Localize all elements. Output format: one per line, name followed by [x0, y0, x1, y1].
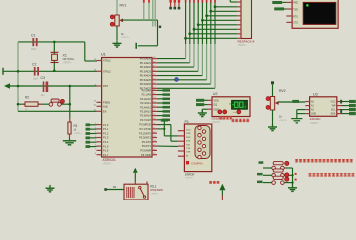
svg-text:SDA: SDA: [331, 113, 336, 116]
svg-text:EA: EA: [103, 110, 107, 114]
svg-text:P3.4/T0: P3.4/T0: [142, 140, 152, 144]
svg-text:WP: WP: [332, 106, 336, 108]
svg-text:4B: 4B: [113, 186, 116, 189]
svg-text:ALE: ALE: [103, 105, 108, 109]
svg-text:<TEXT>: <TEXT>: [121, 36, 130, 39]
svg-text:<TEXT>: <TEXT>: [103, 162, 113, 165]
svg-text:30: 30: [94, 105, 97, 107]
svg-text:P1.6: P1.6: [103, 149, 109, 153]
svg-text:AT89C51: AT89C51: [103, 158, 116, 162]
svg-text:<TEXT>: <TEXT>: [63, 62, 73, 65]
svg-text:<TEXT>: <TEXT>: [150, 192, 159, 195]
svg-text:GND: GND: [311, 114, 316, 116]
svg-text:SCL: SCL: [331, 110, 336, 112]
svg-text:P0.5/AD5: P0.5/AD5: [140, 78, 152, 82]
svg-text:DTR: DTR: [186, 152, 191, 154]
svg-text:P0.3/AD3: P0.3/AD3: [140, 69, 152, 73]
svg-text:1k: 1k: [279, 115, 282, 119]
svg-text:TXD: TXD: [293, 9, 298, 11]
svg-text:P1.5: P1.5: [103, 144, 109, 148]
svg-text:30pF: 30pF: [31, 48, 37, 51]
svg-text:<TEXT>: <TEXT>: [185, 177, 194, 180]
svg-text:24C04C: 24C04C: [310, 117, 322, 121]
svg-text:<TEXT>: <TEXT>: [212, 121, 222, 124]
svg-text:RXD: RXD: [186, 137, 191, 139]
svg-text:RESPACK-8: RESPACK-8: [238, 40, 255, 44]
svg-text:<TEXT>: <TEXT>: [310, 122, 320, 125]
svg-text:P3.3/INT1: P3.3/INT1: [139, 136, 151, 140]
svg-text:CTS: CTS: [293, 23, 298, 25]
svg-text:<TEXT>: <TEXT>: [74, 132, 83, 135]
svg-text:1k: 1k: [121, 32, 124, 36]
svg-text:CTS: CTS: [186, 148, 191, 150]
svg-text:10u: 10u: [41, 94, 46, 97]
svg-text:P1: P1: [185, 120, 189, 124]
svg-text:RV1: RV1: [120, 3, 127, 7]
svg-text:8: 8: [95, 153, 97, 155]
svg-text:P2.3/A11: P2.3/A11: [140, 101, 151, 105]
svg-text:P3.2/INT0: P3.2/INT0: [139, 131, 151, 135]
svg-text:P2.6/A14: P2.6/A14: [140, 114, 151, 118]
svg-text:DQ: DQ: [214, 104, 218, 107]
svg-text:CRYSTAL: CRYSTAL: [63, 57, 75, 61]
svg-text:P1.3: P1.3: [103, 136, 109, 140]
svg-text:29: 29: [94, 101, 97, 103]
svg-text:P1.0: P1.0: [103, 123, 109, 127]
svg-text:DSR: DSR: [186, 133, 191, 135]
svg-text:C1: C1: [31, 34, 35, 38]
svg-text:ERROR: ERROR: [185, 172, 194, 176]
svg-text:P1.1: P1.1: [103, 127, 109, 131]
svg-text:DCD: DCD: [186, 130, 191, 132]
svg-text:P0.4/AD4: P0.4/AD4: [140, 74, 152, 78]
svg-text:XTAL1: XTAL1: [103, 59, 111, 63]
svg-text:U1: U1: [101, 53, 106, 57]
svg-text:1k: 1k: [74, 129, 77, 132]
svg-text:R2: R2: [25, 95, 29, 99]
svg-text:U3: U3: [313, 92, 318, 96]
svg-text:RST: RST: [103, 84, 109, 88]
svg-text:P3.5/T1: P3.5/T1: [142, 144, 152, 148]
svg-text:VCC: VCC: [331, 102, 336, 104]
svg-text:P3.6/WR: P3.6/WR: [140, 149, 151, 153]
svg-text:RL1: RL1: [150, 185, 156, 189]
svg-text:X1: X1: [63, 53, 67, 57]
svg-text:<TEXT>: <TEXT>: [279, 119, 288, 122]
svg-text:TXD: TXD: [186, 144, 191, 146]
svg-text:P2.2/A10: P2.2/A10: [140, 97, 151, 101]
svg-text:P3.1/TXD: P3.1/TXD: [140, 127, 151, 131]
svg-text:C3: C3: [41, 76, 45, 80]
svg-text:P1.4: P1.4: [103, 140, 109, 144]
svg-text:P3.0/RXD: P3.0/RXD: [139, 123, 151, 127]
svg-text:P1.7: P1.7: [103, 153, 109, 157]
svg-text:C2: C2: [32, 62, 36, 66]
svg-text:P2.7/A15: P2.7/A15: [140, 118, 151, 122]
svg-text:PSEN: PSEN: [103, 101, 110, 105]
svg-text:RXD: RXD: [293, 3, 298, 5]
svg-text:P0.2/AD2: P0.2/AD2: [140, 65, 152, 69]
svg-text:RTS: RTS: [293, 16, 298, 18]
svg-text:RTE24005F: RTE24005F: [150, 189, 163, 192]
svg-text:VDD: VDD: [214, 99, 219, 102]
svg-text:<TEXT>: <TEXT>: [238, 44, 248, 47]
svg-text:P0.1/AD1: P0.1/AD1: [140, 61, 152, 65]
svg-text:30pF: 30pF: [33, 78, 39, 81]
svg-text:RV2: RV2: [279, 89, 286, 93]
svg-text:P0.0/AD0: P0.0/AD0: [140, 57, 152, 61]
svg-text:R1: R1: [74, 124, 78, 128]
svg-text:P0.6/AD6: P0.6/AD6: [140, 82, 152, 86]
svg-text:P2.4/A12: P2.4/A12: [140, 105, 151, 109]
svg-text:U2: U2: [213, 92, 218, 96]
svg-text:P1.2: P1.2: [103, 131, 109, 135]
svg-text:P2.0/A8: P2.0/A8: [142, 89, 152, 93]
svg-text:XTAL2: XTAL2: [103, 70, 111, 74]
svg-text:P3.7/RD: P3.7/RD: [141, 153, 151, 157]
svg-text:P2.1/A9: P2.1/A9: [142, 93, 152, 97]
svg-text:P2.5/A13: P2.5/A13: [140, 110, 151, 114]
svg-text:1k: 1k: [25, 108, 28, 111]
svg-text:7: 7: [95, 149, 97, 151]
svg-text:COMPIM: COMPIM: [191, 162, 203, 166]
svg-text:RTS: RTS: [186, 141, 191, 143]
